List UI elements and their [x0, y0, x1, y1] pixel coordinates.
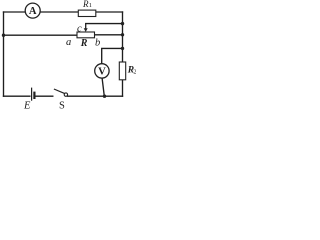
wire R2 bottom segment	[122, 80, 124, 96]
wire rheostat terminal b to right vertical	[94, 34, 122, 36]
wire ammeter to R1	[40, 11, 78, 13]
wire bottom left corner to battery	[4, 95, 30, 97]
svg-text:1: 1	[89, 2, 92, 9]
ammeter A	[25, 3, 40, 18]
node: voltmeter tap on right vertical	[121, 47, 124, 50]
wire left vertical	[3, 12, 5, 96]
wire bottom between battery and switch	[35, 95, 52, 97]
svg-text:E: E	[23, 100, 31, 110]
wire voltmeter bottom lead	[102, 78, 104, 96]
label R2	[127, 65, 137, 75]
rheostat slider arrow	[84, 24, 88, 32]
svg-text:b: b	[95, 38, 100, 49]
node: slider tap on right vertical	[121, 22, 124, 25]
wire bottom right (junction to corner)	[68, 95, 123, 97]
voltmeter V	[95, 64, 109, 78]
battery E	[32, 88, 35, 101]
svg-text:A: A	[29, 6, 37, 17]
wire top-left horizontal	[4, 11, 26, 13]
svg-text:c: c	[77, 23, 82, 34]
svg-text:S: S	[59, 100, 65, 110]
wire rheostat slider tap c to right vertical	[86, 23, 123, 25]
svg-text:a: a	[66, 37, 71, 48]
label R1	[82, 0, 92, 9]
rheostat R box	[77, 32, 95, 38]
svg-text:R: R	[80, 38, 88, 49]
node: junction on left vertical	[2, 34, 5, 37]
node: bottom junction under voltmeter	[103, 95, 106, 98]
resistor R1	[78, 10, 96, 16]
node: terminal b on right vertical	[121, 33, 124, 36]
wire right vertical upper segment	[122, 12, 124, 62]
svg-text:2: 2	[133, 69, 136, 76]
svg-text:V: V	[98, 66, 106, 77]
resistor R2	[119, 62, 125, 80]
wire to rheostat terminal a	[4, 34, 78, 36]
wire R1 to top-right corner	[96, 11, 123, 13]
switch S	[54, 89, 68, 96]
wire voltmeter top branch	[102, 48, 123, 63]
